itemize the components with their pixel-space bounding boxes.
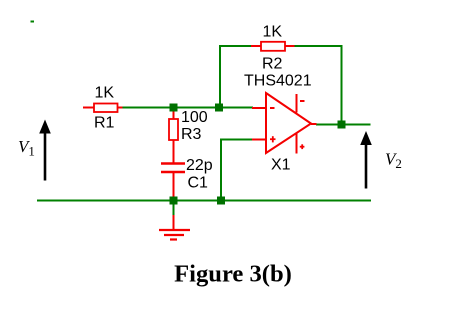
wire: feedback loop left vertical (219, 46, 221, 106)
svg-text:R1: R1 (94, 115, 115, 132)
resistor R3 (169, 110, 178, 164)
arrow V1 (39, 120, 51, 181)
wire: feedback top right segment (295, 45, 343, 47)
resistor R2 (251, 42, 295, 51)
svg-text:X1: X1 (271, 157, 291, 174)
wire: bottom ground rail (37, 200, 371, 202)
wire: non-inverting input horizontal (220, 139, 253, 141)
svg-text:THS4021: THS4021 (244, 73, 312, 90)
junction node: output / feedback (338, 121, 346, 129)
op-amp supply plus mark (300, 144, 305, 149)
svg-text:V2: V2 (385, 150, 402, 172)
op-amp inverting input minus mark (270, 107, 275, 109)
svg-text:1K: 1K (263, 24, 283, 41)
junction node: ground rail / C1 (170, 197, 178, 205)
svg-text:100: 100 (181, 109, 208, 126)
op-amp negative supply pin (296, 134, 298, 154)
wire: feedback loop right vertical (341, 45, 343, 123)
junction node: ground rail / non-inverting (217, 197, 225, 205)
wire: main input horizontal (122, 107, 253, 109)
capacitor C1 (161, 164, 185, 198)
ground (159, 215, 190, 240)
wire: non-inverting input vertical (220, 139, 222, 201)
stray mark top-left (31, 21, 35, 23)
op-amp positive supply pin (296, 94, 298, 113)
svg-text:C1: C1 (188, 175, 209, 192)
op-amp supply minus mark (300, 100, 305, 102)
svg-text:R3: R3 (181, 126, 202, 143)
junction node: R1 / R3 (170, 104, 178, 112)
svg-text:1K: 1K (95, 85, 115, 102)
junction node: feedback tap (215, 104, 223, 112)
resistor R1 (83, 104, 123, 113)
arrow V2 (360, 131, 372, 189)
op-amp inverting input pin (252, 107, 265, 109)
svg-text:V1: V1 (18, 137, 35, 159)
op-amp output pin (311, 123, 317, 125)
op-amp U1 triangle (266, 93, 311, 153)
svg-text:R2: R2 (262, 56, 283, 73)
wire: ground stub (173, 203, 175, 216)
svg-text:Figure 3(b): Figure 3(b) (174, 260, 292, 287)
op-amp non-inverting input plus mark (270, 136, 276, 142)
wire: output horizontal (316, 124, 371, 126)
wire: feedback top left segment (219, 45, 252, 47)
svg-text:22p: 22p (186, 157, 213, 174)
op-amp non-inverting input pin (252, 139, 265, 141)
